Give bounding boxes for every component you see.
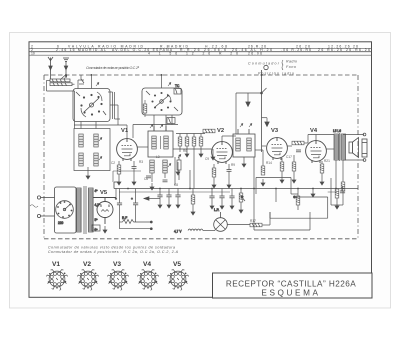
svg-text:C2: C2 <box>111 161 115 165</box>
V2 bypass cap <box>227 164 232 188</box>
svg-text:ESQUEMA: ESQUEMA <box>261 289 320 298</box>
filter caps C + <box>115 189 138 229</box>
pilot feed squiggle 4,7V <box>174 229 215 234</box>
title box <box>213 273 373 298</box>
V1 bypass cap C2 <box>132 161 137 185</box>
grid capacitor left of S1b <box>143 100 147 117</box>
svg-text:V5: V5 <box>173 261 181 268</box>
AF coupling loop wires <box>256 178 300 211</box>
parts-list table text row 3 <box>31 52 262 56</box>
wafer S1b stem <box>162 76 182 94</box>
svg-text:TC: TC <box>175 84 180 88</box>
ground terminal <box>63 58 69 75</box>
wafer S1a stem <box>78 76 99 89</box>
switch note: radio/fono <box>248 60 297 76</box>
V2 cathode resistor <box>212 164 216 188</box>
svg-text:R17: R17 <box>250 219 256 223</box>
feedback resistor <box>331 160 345 205</box>
wire: V4 plate to output transformer <box>308 135 336 150</box>
coupling resistor R between V3 V4 <box>292 141 308 152</box>
socket V4 <box>137 270 158 291</box>
svg-text:V3: V3 <box>271 128 279 134</box>
svg-text:R14: R14 <box>266 161 272 165</box>
bias resistor under transformer <box>92 225 100 231</box>
oscillator padder caps <box>146 176 168 182</box>
svg-text:C17: C17 <box>286 155 292 159</box>
svg-text:6L: 6L <box>93 227 97 231</box>
speaker terminals <box>336 133 366 188</box>
rectifier tube V5 <box>93 198 116 225</box>
V4 cathode resistor <box>320 161 324 185</box>
tube V4 <box>306 141 327 163</box>
V1 cathode resistor R1 <box>117 161 121 185</box>
mains voltage selector <box>55 187 77 233</box>
svg-text:Fono: Fono <box>286 65 296 69</box>
svg-text:R21: R21 <box>324 159 330 163</box>
IF transformer T1 can <box>148 126 173 157</box>
svg-text:V4: V4 <box>310 128 318 134</box>
svg-text:+: + <box>131 197 133 201</box>
band switch wafer S1b <box>142 88 182 115</box>
parts-list table text row 1 <box>31 45 358 49</box>
svg-text:C8: C8 <box>174 183 178 187</box>
tone network ground <box>311 190 315 197</box>
chassis dashed outline <box>44 75 358 239</box>
V3 grid cap C <box>262 145 292 147</box>
socket V5 <box>167 270 188 291</box>
pilot lamp <box>214 208 228 231</box>
wire: V1 plate to IF1 <box>133 115 212 149</box>
tube V2 <box>212 142 233 164</box>
svg-text:Conmutador de ondas en posició: Conmutador de ondas en posición O.C. 2ª <box>86 66 140 70</box>
antenna terminal <box>48 57 53 79</box>
wire: radio/fono switch drop <box>236 70 267 152</box>
tube V3 <box>267 138 288 160</box>
power transformer T2 <box>77 186 101 234</box>
volume pot P1 <box>239 189 245 214</box>
svg-text:Conmutador de ondas 4 posicion: Conmutador de ondas 4 posiciones : R.C 2… <box>48 250 179 254</box>
svg-text:Conmutador: Conmutador <box>248 62 280 66</box>
svg-text:R9: R9 <box>231 163 235 167</box>
svg-text:R3: R3 <box>139 160 143 164</box>
V1 pin bus wire <box>113 171 141 182</box>
wire: V1 grid cap <box>108 92 127 139</box>
svg-text:V1: V1 <box>121 128 129 134</box>
switch contact near antenna <box>79 75 84 84</box>
IF T1 tuning arrows <box>150 125 163 129</box>
svg-text:+: + <box>115 197 117 201</box>
svg-text:Radio: Radio <box>286 60 297 64</box>
antenna coupling caps <box>47 75 75 129</box>
grid resistor drops right <box>333 186 345 209</box>
svg-text:V1: V1 <box>52 261 60 268</box>
svg-text:Conmutador de válvulas visto d: Conmutador de válvulas visto desde los p… <box>48 246 175 250</box>
socket V3 <box>107 270 128 291</box>
osc ground <box>150 183 154 190</box>
power transformer terminals <box>30 196 55 218</box>
cluster grounds <box>175 149 215 185</box>
avc return arrow <box>262 118 270 127</box>
svg-text:L.P.: L.P. <box>214 208 219 212</box>
svg-text:V4: V4 <box>143 261 151 268</box>
screen feed resistor cluster <box>176 129 215 188</box>
long bus drop from IF2 <box>190 157 310 230</box>
svg-text:C9: C9 <box>205 157 209 161</box>
more decoupling drops <box>209 189 234 210</box>
bus junction dots <box>127 188 344 190</box>
svg-text:RECEPTOR “CASTILLA” H226A: RECEPTOR “CASTILLA” H226A <box>226 280 356 289</box>
aerial coil assembly L1 L2 <box>74 129 110 173</box>
output transformer L5 L6 <box>333 129 346 161</box>
band switch wafer S1a <box>73 89 110 122</box>
svg-text:V2: V2 <box>83 261 91 268</box>
wire: V2 top <box>222 136 236 142</box>
svg-text:V2: V2 <box>217 128 224 134</box>
junction dots on chassis line <box>65 74 263 76</box>
socket V2 <box>77 270 98 291</box>
svg-text:V3: V3 <box>113 261 121 268</box>
humdinger resistor <box>120 216 153 230</box>
heater return arrow <box>144 197 160 201</box>
svg-text:L5 L6: L5 L6 <box>333 129 341 133</box>
svg-text:220: 220 <box>58 221 64 225</box>
diode load resistor under IF2 <box>242 150 265 186</box>
border frame <box>29 42 372 297</box>
V5 ground <box>103 226 107 233</box>
V3 cathode network <box>280 155 296 183</box>
stray value labels <box>111 149 330 187</box>
screen dropper resistor <box>191 189 195 216</box>
svg-text:10: 10 <box>31 52 35 56</box>
resistor R17 <box>227 212 270 227</box>
parts-list table text row 2 <box>31 47 370 52</box>
IF T2 tuning arrows <box>240 124 252 128</box>
fono input arrow <box>246 93 250 107</box>
wire: wafer S1a to coils <box>74 105 127 129</box>
tube V1 <box>117 139 138 161</box>
loudspeaker <box>349 138 367 158</box>
socket V1 <box>46 270 67 291</box>
decoupling cap drops on bus <box>157 189 180 209</box>
B+ bus <box>114 182 358 192</box>
svg-text:4,7 V: 4,7 V <box>174 230 182 234</box>
coil assembly ground <box>86 172 90 179</box>
parts-list table rules <box>29 48 372 55</box>
IF transformer T2 can <box>233 129 255 157</box>
svg-text:2.46 16 MADRID.AL: 2.46 16 MADRID.AL <box>56 48 106 52</box>
svg-text:Posición radio: Posición radio <box>258 72 294 76</box>
oscillator coil L3 L4 <box>150 155 181 182</box>
svg-text:V5: V5 <box>100 190 108 196</box>
tone network wires <box>270 189 333 219</box>
svg-text:R.F: R.F <box>122 216 127 220</box>
